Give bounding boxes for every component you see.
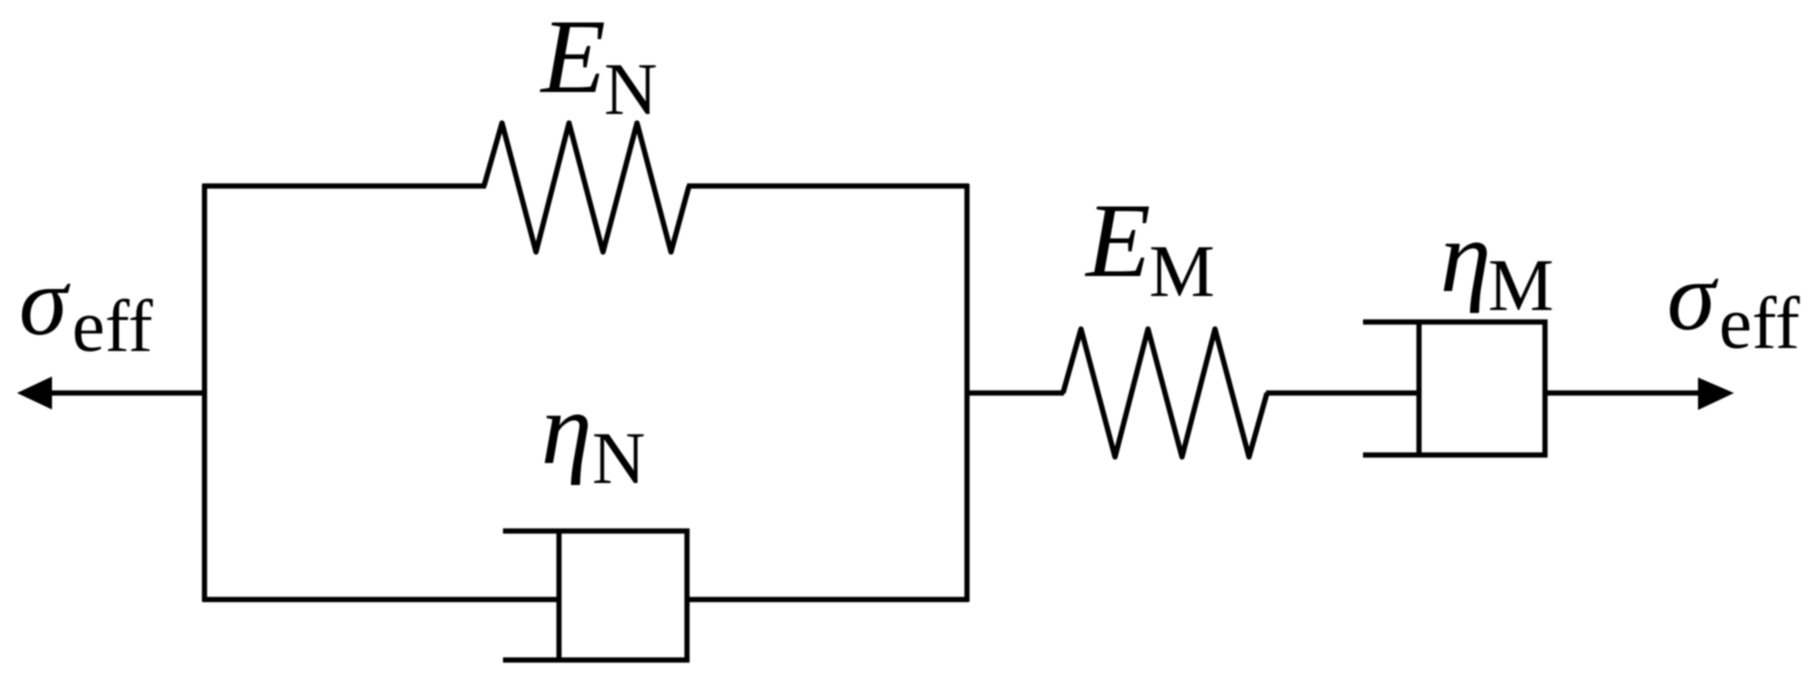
dashpot eta_M piston plate: [1416, 322, 1421, 455]
svg-text:M: M: [1149, 231, 1215, 313]
arrowhead right: [1698, 378, 1734, 411]
svg-text:σ: σ: [19, 248, 71, 356]
wire: box top-left segment: [203, 183, 487, 188]
svg-text:σ: σ: [1667, 243, 1719, 351]
wire: box right vertical: [964, 184, 969, 602]
svg-text:N: N: [592, 418, 645, 500]
wire: left arrow shaft: [46, 390, 206, 395]
wire: series link from box to spring E_M: [965, 390, 1064, 395]
dashpot eta_N cylinder: [503, 531, 687, 660]
svg-text:η: η: [1440, 200, 1491, 314]
svg-text:N: N: [604, 49, 657, 131]
wire: box bottom-left segment (rod of eta_N): [203, 597, 560, 602]
svg-text:E: E: [1084, 182, 1151, 299]
wire: spring E_M to dashpot eta_M (rod): [1266, 390, 1419, 395]
svg-text:η: η: [541, 372, 592, 486]
wire: box top-right segment: [687, 183, 969, 188]
svg-text:eff: eff: [72, 286, 153, 368]
dashpot eta_M cylinder: [1363, 322, 1545, 455]
svg-text:M: M: [1488, 245, 1554, 327]
svg-text:E: E: [539, 0, 606, 115]
svg-text:eff: eff: [1719, 283, 1800, 365]
dashpot eta_N piston plate: [556, 531, 561, 660]
wire: box bottom-right segment: [687, 597, 969, 602]
spring E_M: [1063, 329, 1267, 457]
arrowhead left: [17, 377, 52, 410]
wire: right arrow shaft: [1545, 390, 1702, 395]
wire: box left vertical: [202, 184, 207, 602]
spring E_N: [484, 123, 689, 252]
